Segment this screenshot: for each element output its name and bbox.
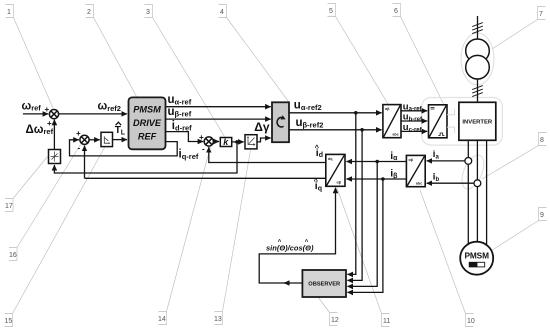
wire k to limiter (232, 141, 244, 143)
callout 10 (420, 190, 474, 327)
callout 2 (86, 5, 137, 97)
block transform ab to abc (383, 105, 401, 138)
summing junction S1 (49, 110, 58, 119)
wire id_hat feedback into S3 (209, 147, 326, 162)
svg-text:3: 3 (146, 9, 150, 16)
svg-text:-: - (78, 144, 81, 153)
connector marks PWM to inverter (447, 109, 455, 133)
svg-text:REF: REF (138, 132, 157, 142)
svg-text:8: 8 (540, 137, 544, 144)
wire i_beta (346, 178, 406, 180)
block k (220, 137, 231, 147)
callout 13 (215, 150, 251, 325)
wire inverter to motor phase c (486, 140, 488, 246)
wire inverter to motor phase b (476, 140, 478, 242)
wire observer output sin cos (259, 188, 335, 283)
svg-text:6: 6 (394, 8, 398, 15)
svg-text:PMSM: PMSM (133, 104, 161, 114)
wire inverter to motor phase a (467, 140, 469, 245)
svg-text:13: 13 (214, 316, 222, 323)
wire u_alpha to observer (347, 113, 355, 275)
svg-text:17: 17 (5, 203, 13, 210)
rate block A1 (49, 150, 61, 164)
block transform abc to ab (406, 155, 425, 186)
callout 4 (219, 5, 289, 102)
relay block A2 (101, 132, 113, 146)
current sensor a (465, 158, 472, 165)
wire u_b-ref (401, 120, 427, 122)
wire iq-ref loop into S2 (70, 140, 178, 156)
svg-text:^: ^ (315, 143, 320, 152)
svg-text:1: 1 (7, 9, 11, 16)
wire w_ref input (23, 113, 48, 115)
svg-text:10: 10 (467, 318, 475, 325)
wire iq feedback into S2 (84, 146, 86, 179)
svg-text:4: 4 (220, 9, 224, 16)
callout 1 (6, 5, 54, 109)
wire relay to PMSM T_L (113, 139, 128, 141)
wire i_beta to observer (347, 179, 383, 292)
block transform ab to dq (326, 154, 345, 186)
wire feedback into rate block A1 (54, 142, 237, 173)
callout 7 (492, 7, 546, 50)
wire transformer to inverter (477, 78, 479, 103)
svg-text:OBSERVER: OBSERVER (308, 282, 340, 288)
transformer (466, 39, 490, 79)
svg-text:abc: abc (416, 181, 422, 185)
wire i_d-ref (166, 132, 204, 142)
callout 14 (159, 147, 211, 325)
block INVERTER (459, 102, 496, 140)
wire u_beta-ref2 (289, 129, 382, 131)
callout 16 (9, 145, 81, 261)
svg-text:^: ^ (314, 176, 319, 185)
callout 11 (337, 188, 390, 327)
wire u_a-ref (401, 110, 427, 112)
wire u_beta-ref (166, 118, 271, 120)
wire i_b (427, 182, 474, 184)
svg-text:+: + (76, 129, 81, 138)
block PMSM DRIVE REF (129, 97, 166, 149)
svg-text:INVERTER: INVERTER (462, 120, 493, 126)
wire i_a (427, 160, 465, 162)
callout 6 (393, 4, 444, 105)
wire limiter to rotator delta-gamma (257, 138, 271, 142)
highlight ellipse around transformer (461, 33, 494, 85)
callout 17 (5, 157, 48, 212)
wire S2 to relay (89, 139, 100, 141)
node u_beta tap (360, 128, 364, 132)
block rotator (272, 102, 289, 142)
current sensor b (474, 180, 481, 187)
wire grid feed with phase slashes (477, 16, 479, 40)
svg-text:^: ^ (305, 240, 309, 246)
wire u_alpha-ref2 (289, 112, 382, 114)
wire S1 to PMSM DRIVE REF (58, 113, 127, 115)
svg-text:PMSM: PMSM (464, 250, 489, 260)
node i_beta tap (381, 177, 385, 181)
wire S3 to k (213, 141, 219, 143)
svg-text:7: 7 (539, 11, 543, 18)
node i_alpha tap (375, 160, 379, 164)
svg-text:5: 5 (329, 8, 333, 15)
svg-text:^: ^ (278, 240, 282, 246)
callout 12 (319, 298, 338, 326)
highlight ellipse around current sensors (458, 152, 489, 192)
converter group outline (422, 98, 503, 146)
svg-text:-: - (202, 145, 205, 154)
motor PMSM (460, 242, 493, 275)
wire iq_hat rail (85, 177, 326, 179)
svg-text:14: 14 (158, 316, 166, 323)
svg-text:11: 11 (383, 318, 390, 325)
wire u_beta to observer (347, 130, 362, 281)
wire delta-w into S1 (53, 120, 55, 150)
svg-text:+: + (45, 105, 50, 114)
wire u_alpha-ref (166, 106, 271, 108)
node after k (235, 140, 239, 144)
svg-text:DRIVE: DRIVE (133, 118, 162, 128)
phase slashes bottom (472, 86, 483, 97)
summing junction S3 (204, 137, 213, 146)
svg-text:+: + (199, 133, 204, 142)
summing junction S2 (80, 135, 89, 144)
wire i_alpha (346, 161, 406, 163)
svg-text:dq: dq (328, 157, 332, 161)
svg-text:Δγ: Δγ (254, 120, 270, 134)
limiter block A3 (245, 135, 257, 149)
callout 8 (482, 133, 547, 180)
phase slashes top (472, 23, 483, 34)
callout 9 (492, 208, 547, 251)
wire u_c-ref (401, 130, 427, 132)
svg-text:12: 12 (331, 317, 339, 324)
svg-text:16: 16 (9, 252, 17, 259)
callout 3 (145, 5, 225, 137)
block OBSERVER (302, 270, 346, 297)
svg-text:15: 15 (5, 318, 13, 325)
svg-text:abc: abc (393, 133, 399, 137)
svg-text:2: 2 (87, 9, 91, 16)
callout 5 (328, 4, 389, 105)
callout 15 (5, 148, 105, 327)
svg-text:9: 9 (540, 212, 544, 219)
node u_alpha tap (354, 111, 358, 115)
arrow on observer output (284, 282, 288, 284)
wire i_alpha to observer (347, 162, 377, 287)
block PWM (429, 105, 448, 138)
